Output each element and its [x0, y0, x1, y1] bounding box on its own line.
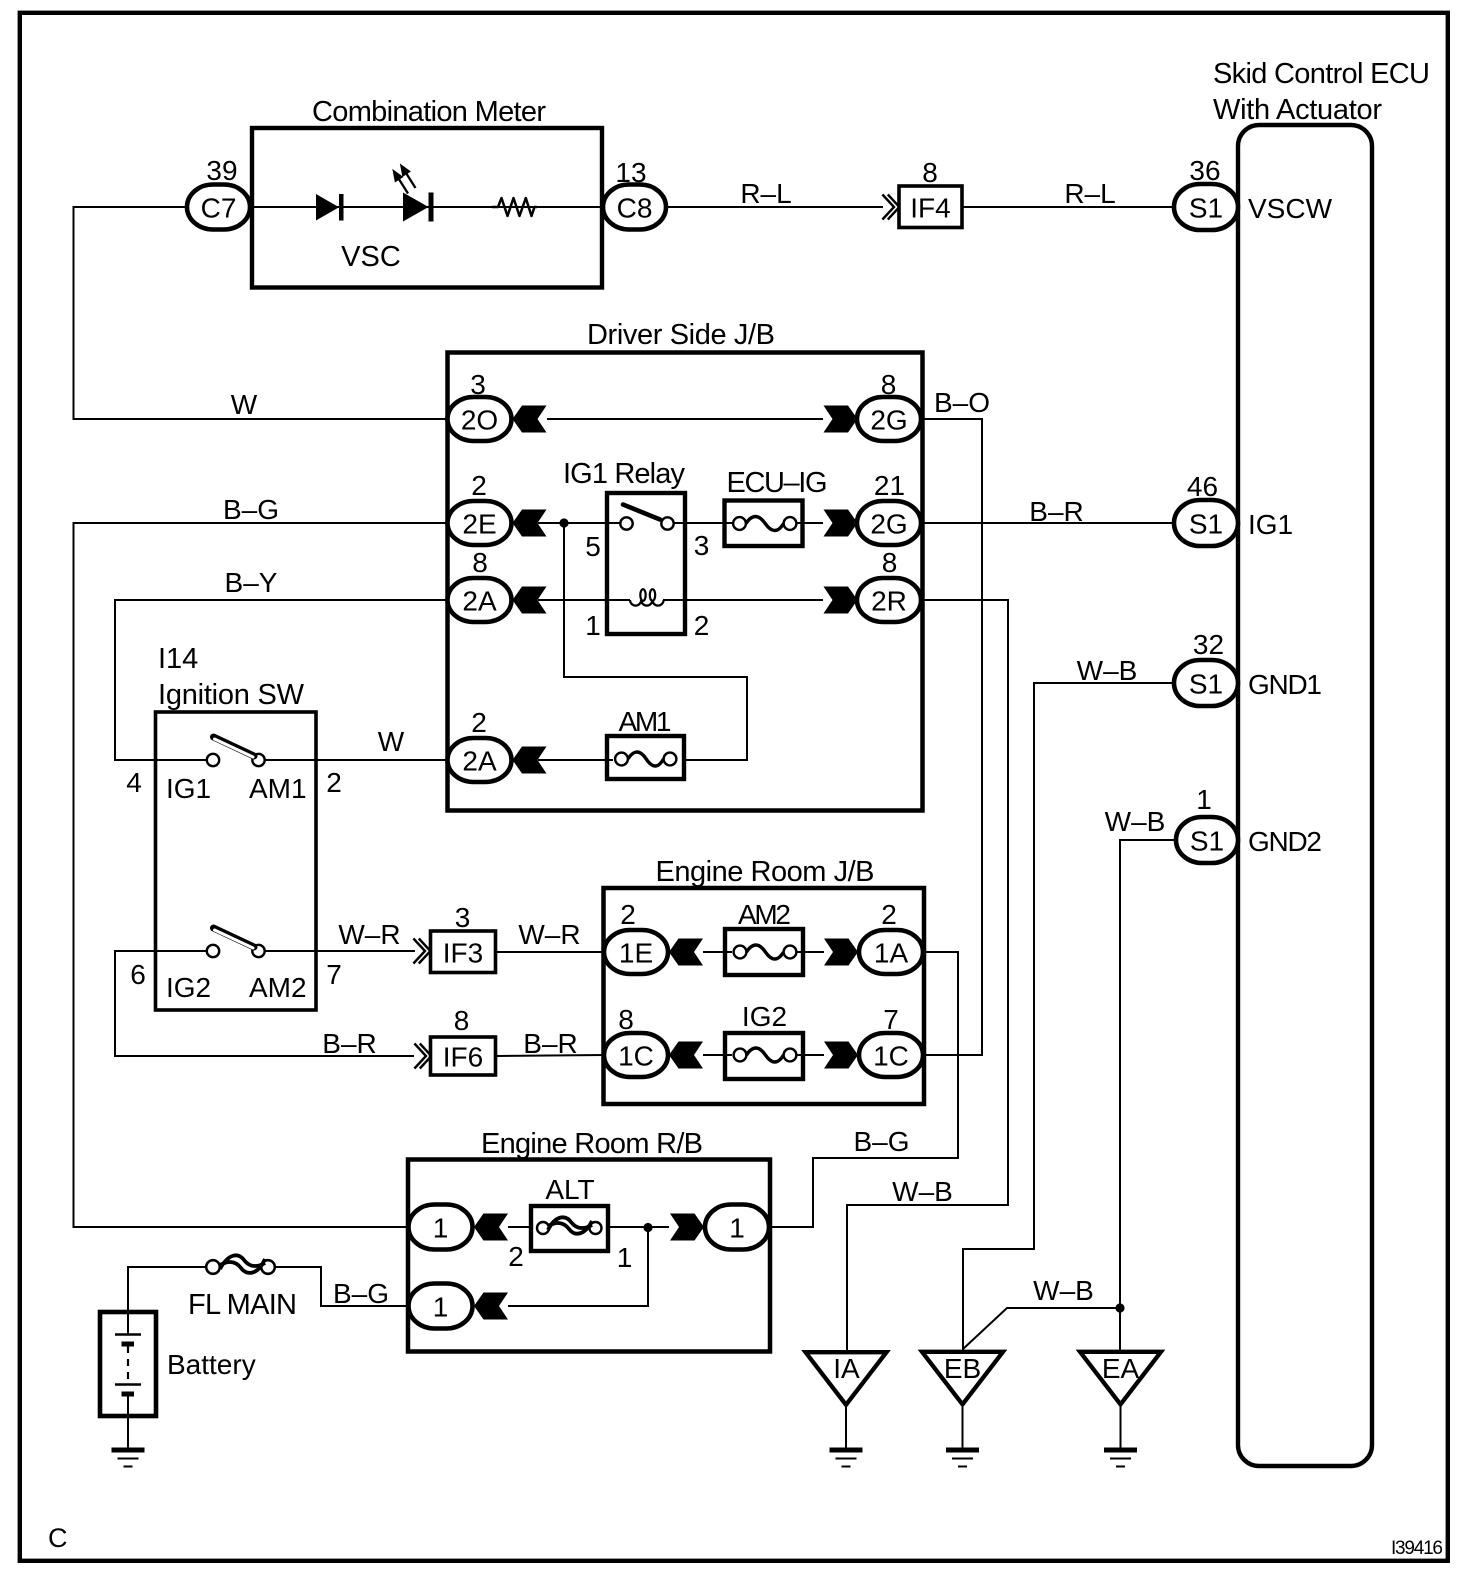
- harness arrow at 2G top: [824, 406, 858, 433]
- svg-text:IG2: IG2: [166, 972, 211, 1003]
- svg-text:IG1: IG1: [1248, 509, 1293, 540]
- Skid Control ECU with actuator body: [1238, 125, 1372, 1466]
- ground symbol below EA: [1104, 1450, 1137, 1467]
- harness arrow at R/B right 1: [670, 1214, 704, 1241]
- wire row B inside Driver Side J/B between arrows: [547, 418, 823, 420]
- svg-text:C8: C8: [617, 193, 653, 224]
- svg-text:IG2: IG2: [742, 1001, 787, 1032]
- svg-text:S1: S1: [1189, 509, 1223, 540]
- harness arrow at 1C right: [824, 1042, 858, 1069]
- svg-text:2: 2: [471, 707, 487, 738]
- male connector IF3: [413, 939, 430, 964]
- svg-text:1: 1: [433, 1213, 449, 1244]
- svg-text:W: W: [231, 389, 258, 420]
- wire row I: 1C arrow to IG2 fuse: [703, 1054, 732, 1056]
- svg-text:VSCW: VSCW: [1248, 193, 1333, 224]
- svg-text:GND2: GND2: [1248, 826, 1322, 857]
- svg-text:1E: 1E: [619, 938, 653, 969]
- svg-text:Engine Room R/B: Engine Room R/B: [481, 1128, 703, 1160]
- svg-text:AM2: AM2: [249, 972, 307, 1003]
- svg-text:W–B: W–B: [1033, 1275, 1094, 1306]
- svg-text:1: 1: [617, 1242, 633, 1273]
- wire R/B: junction down and left to bottom pin 1 arrow: [508, 1227, 648, 1306]
- relay switch lever: [623, 505, 660, 520]
- connector 1 bottom (R/B): [409, 1284, 473, 1329]
- wire EB triangle to ground: [962, 1406, 964, 1449]
- svg-text:ECU–IG: ECU–IG: [727, 467, 828, 499]
- svg-text:2: 2: [620, 899, 636, 930]
- connector 1 right (R/B): [705, 1205, 769, 1250]
- harness arrow at R/B bottom 1: [474, 1293, 508, 1320]
- svg-text:GND1: GND1: [1248, 669, 1322, 700]
- svg-text:W–R: W–R: [338, 919, 400, 950]
- svg-text:VSC: VSC: [341, 241, 401, 273]
- svg-text:46: 46: [1187, 471, 1218, 502]
- svg-text:1: 1: [1196, 784, 1212, 815]
- connector S1 VSCW pin 36: [1174, 184, 1238, 230]
- svg-text:B–G: B–G: [333, 1278, 389, 1309]
- wire W-B branch from EA line to EB triangle: [963, 1308, 1120, 1349]
- harness arrow at 1C left: [669, 1042, 703, 1069]
- svg-text:Skid Control ECU: Skid Control ECU: [1213, 58, 1430, 90]
- svg-text:2A: 2A: [462, 586, 497, 617]
- svg-text:2R: 2R: [871, 586, 907, 617]
- svg-text:3: 3: [470, 369, 486, 400]
- svg-text:B–Y: B–Y: [225, 567, 278, 598]
- svg-text:ALT: ALT: [545, 1174, 594, 1205]
- connector 2A pin 2 bottom: [448, 738, 512, 782]
- male connector IF4: [882, 195, 899, 220]
- svg-text:IF4: IF4: [910, 193, 950, 224]
- svg-text:1C: 1C: [618, 1041, 654, 1072]
- junction node on EA wire: [1115, 1303, 1124, 1312]
- wire row I: IG2 fuse to 1C arrow: [796, 1054, 824, 1056]
- wire W-R: ignition SW AM2 pin 7 to IF3: [265, 950, 416, 952]
- connector S1 IG1 pin 46: [1174, 500, 1238, 546]
- svg-text:1: 1: [729, 1213, 745, 1244]
- svg-text:Engine Room J/B: Engine Room J/B: [656, 856, 875, 888]
- wire B-Y: 2A left, down to ignition SW IG1 pin 4: [115, 600, 448, 760]
- wire 2A bottom arrow to AM1 fuse: [538, 759, 613, 761]
- harness arrow at 2E: [513, 510, 547, 537]
- svg-text:W–B: W–B: [1077, 655, 1138, 686]
- svg-text:2: 2: [326, 767, 342, 798]
- connector 2O pin 3: [448, 397, 512, 441]
- svg-text:2G: 2G: [870, 509, 907, 540]
- fuse ECU-IG: [725, 501, 803, 547]
- svg-text:W: W: [378, 726, 405, 757]
- wire R/B: left arrow to ALT fuse: [508, 1226, 531, 1228]
- harness arrow at 2O: [513, 406, 547, 433]
- svg-text:8: 8: [618, 1004, 634, 1035]
- ground triangle EA: [1080, 1352, 1161, 1405]
- connector 2R pin 8: [857, 578, 921, 622]
- wire B-R: 2G mid to S1 IG1: [921, 522, 1174, 524]
- ground triangle EB: [922, 1352, 1003, 1405]
- svg-text:FL MAIN: FL MAIN: [188, 1289, 297, 1321]
- connector S1 GND1 pin 32: [1174, 660, 1238, 706]
- svg-text:3: 3: [455, 902, 471, 933]
- svg-text:B–R: B–R: [322, 1028, 376, 1059]
- ground symbol below IA: [830, 1450, 863, 1467]
- fuse IG2: [725, 1033, 803, 1079]
- svg-text:5: 5: [585, 531, 601, 562]
- diode D1: [316, 194, 344, 221]
- svg-text:I14: I14: [158, 643, 198, 675]
- junction node in R/B: [643, 1223, 652, 1232]
- connector 1A pin 2: [859, 930, 923, 974]
- svg-text:1: 1: [585, 610, 601, 641]
- svg-text:1C: 1C: [873, 1041, 909, 1072]
- svg-text:7: 7: [326, 959, 342, 990]
- svg-text:6: 6: [130, 959, 146, 990]
- wire row H: 1E arrow to AM2 fuse: [703, 951, 732, 953]
- svg-text:C: C: [48, 1523, 68, 1553]
- wire B-R: IF6 to 1C left: [496, 1055, 604, 1056]
- resistor in meter: [492, 198, 537, 216]
- ignition switch IG1/AM1 lever: [214, 737, 255, 757]
- relay switch contacts: [620, 517, 632, 529]
- svg-text:S1: S1: [1189, 193, 1223, 224]
- svg-text:C7: C7: [201, 193, 237, 224]
- IG1 Relay box: [607, 493, 685, 634]
- svg-text:B–O: B–O: [934, 387, 990, 418]
- svg-text:36: 36: [1189, 155, 1220, 186]
- wire IA triangle to ground: [845, 1407, 847, 1449]
- svg-text:AM1: AM1: [619, 706, 672, 737]
- svg-text:IG1 Relay: IG1 Relay: [563, 458, 686, 490]
- svg-text:Ignition SW: Ignition SW: [158, 679, 305, 711]
- svg-text:IF6: IF6: [443, 1042, 483, 1073]
- connector 1E pin 2: [604, 930, 668, 974]
- wire relay pin 5 junction down to AM1 fuse output: [564, 523, 747, 760]
- svg-text:8: 8: [882, 547, 898, 578]
- svg-text:8: 8: [472, 547, 488, 578]
- svg-text:8: 8: [922, 157, 938, 188]
- fusible link ALT: [531, 1206, 608, 1251]
- svg-text:21: 21: [874, 470, 905, 501]
- ignition switch IG2/AM2 contacts: [207, 945, 219, 957]
- svg-text:Driver Side J/B: Driver Side J/B: [587, 319, 775, 351]
- Ignition SW box I14: [156, 712, 317, 1010]
- connector S1 GND2 pin 1: [1176, 817, 1238, 863]
- svg-text:S1: S1: [1189, 669, 1223, 700]
- svg-text:B–G: B–G: [223, 494, 279, 525]
- svg-text:AM1: AM1: [249, 773, 307, 804]
- connector 1 left (R/B top): [409, 1205, 473, 1250]
- Driver Side J/B box: [448, 353, 923, 811]
- battery: [100, 1312, 156, 1416]
- connector 2A pin 8: [448, 578, 512, 622]
- svg-text:2A: 2A: [462, 746, 497, 777]
- svg-text:EB: EB: [944, 1353, 981, 1384]
- svg-text:2: 2: [881, 899, 897, 930]
- svg-text:8: 8: [454, 1005, 470, 1036]
- harness arrow at 2G mid: [824, 510, 858, 537]
- wire R-L: C8 to IF4: [666, 206, 883, 208]
- svg-text:S1: S1: [1190, 826, 1224, 857]
- svg-text:AM2: AM2: [738, 899, 791, 930]
- svg-text:R–L: R–L: [740, 178, 791, 209]
- wire EA triangle to ground: [1120, 1406, 1122, 1449]
- svg-text:B–R: B–R: [1029, 496, 1083, 527]
- svg-text:W–R: W–R: [518, 919, 580, 950]
- connector 2E pin 2: [448, 501, 512, 545]
- fuse AM1: [607, 736, 684, 779]
- svg-text:IF3: IF3: [443, 938, 483, 969]
- ignition switch IG1/AM1 contacts: [207, 754, 219, 766]
- ground symbol below EB: [946, 1450, 979, 1467]
- wire FL MAIN to R/B bottom pin 1: [275, 1267, 408, 1306]
- svg-text:Combination Meter: Combination Meter: [312, 96, 546, 128]
- svg-text:7: 7: [883, 1004, 899, 1035]
- svg-text:B–G: B–G: [853, 1126, 909, 1157]
- wire row C: ECU-IG fuse to 2G arrow: [796, 522, 823, 524]
- wire R/B: ALT fuse to junction to right pin 1 arrow: [608, 1226, 669, 1228]
- svg-text:2: 2: [471, 470, 487, 501]
- Combination Meter box: [252, 128, 602, 288]
- svg-text:R–L: R–L: [1064, 178, 1115, 209]
- wire 2R right, down, to IA ground triangle (W-B net): [847, 600, 1008, 1350]
- wire row C: 2E arrow to relay pin 5: [538, 522, 620, 524]
- svg-text:13: 13: [615, 157, 646, 188]
- svg-text:3: 3: [694, 530, 710, 561]
- harness arrow at 1A: [824, 939, 858, 966]
- svg-text:1: 1: [433, 1292, 449, 1323]
- svg-text:2: 2: [508, 1241, 524, 1272]
- ground below battery: [112, 1450, 145, 1467]
- svg-text:39: 39: [206, 155, 237, 186]
- wire row H: AM2 fuse to 1A arrow: [796, 951, 824, 953]
- svg-text:Battery: Battery: [167, 1349, 256, 1380]
- Engine Room J/B box: [604, 888, 925, 1104]
- svg-text:With Actuator: With Actuator: [1213, 94, 1382, 126]
- svg-text:B–R: B–R: [523, 1028, 577, 1059]
- wire B-G: 2E left, down to Engine Room R/B pin 1: [74, 523, 448, 1227]
- wire W-R: ignition SW IG2 pin 6 down to IF6 (B-R net): [115, 951, 414, 1056]
- wire W-B: S1 GND2 left, down to EA ground triangle: [1120, 840, 1176, 1350]
- svg-text:32: 32: [1193, 629, 1224, 660]
- wire W: ignition SW AM1 pin 2 to 2A bottom: [265, 759, 448, 761]
- connector 2G pin 21: [857, 501, 921, 545]
- svg-text:1A: 1A: [874, 938, 909, 969]
- svg-text:2O: 2O: [461, 405, 498, 436]
- svg-text:I39416: I39416: [1391, 1538, 1443, 1559]
- wire B-G: 1A right, down, to Engine Room R/B right pin 1: [770, 952, 958, 1227]
- svg-text:W–B: W–B: [892, 1176, 953, 1207]
- harness arrow at 1E: [669, 939, 703, 966]
- svg-text:EA: EA: [1102, 1353, 1140, 1384]
- wire row D: relay coil to 2R arrow: [663, 599, 823, 601]
- harness arrow at 2R: [824, 587, 858, 614]
- ignition switch IG2/AM2 lever: [214, 928, 255, 948]
- ground triangle IA: [806, 1352, 887, 1405]
- wire row D: 2A arrow to relay coil: [538, 599, 630, 601]
- svg-text:W–B: W–B: [1105, 806, 1166, 837]
- junction node at relay pin 5: [559, 518, 568, 527]
- wire row C: relay pin 3 to ECU-IG fuse: [674, 522, 733, 524]
- connector 1C pin 8: [604, 1033, 668, 1077]
- fusible link FL MAIN: [206, 1255, 275, 1273]
- harness arrow at 2A bottom: [513, 747, 547, 774]
- harness arrow at 2A: [513, 587, 547, 614]
- svg-text:2E: 2E: [462, 509, 496, 540]
- connector C7 pin 39: [187, 185, 250, 230]
- male connector IF6: [414, 1044, 431, 1069]
- svg-text:IA: IA: [833, 1353, 860, 1384]
- wire W-R: IF3 to 1E: [496, 951, 604, 953]
- wire inside meter: C7 to C8 through diodes and resistor: [250, 206, 603, 208]
- connector 1C pin 7: [859, 1033, 923, 1077]
- svg-text:8: 8: [881, 369, 897, 400]
- connector 2G pin 8: [857, 397, 921, 441]
- svg-text:2: 2: [694, 610, 710, 641]
- connector C8 pin 13: [603, 185, 666, 230]
- fuse AM2: [725, 929, 803, 975]
- harness arrow at R/B left 1: [474, 1214, 508, 1241]
- LED diode VSC indicator: [394, 166, 434, 222]
- wire C7 to left then down to 2O (W net): [74, 207, 448, 419]
- relay coil: [630, 589, 664, 605]
- svg-text:4: 4: [126, 767, 142, 798]
- wire battery positive up to FL MAIN and to R/B bottom pin 1 (B-G): [128, 1267, 206, 1312]
- wire W-B: S1 GND1 left, down to EB ground triangle: [963, 683, 1174, 1350]
- wire battery negative to ground: [127, 1416, 129, 1449]
- svg-text:IG1: IG1: [166, 773, 211, 804]
- wire R-L: IF4 to S1 VSCW: [962, 206, 1174, 208]
- svg-text:2G: 2G: [870, 405, 907, 436]
- wire B-O: 2G top right, down to 1C right (B-O net): [921, 419, 982, 1055]
- Engine Room R/B box: [408, 1160, 770, 1352]
